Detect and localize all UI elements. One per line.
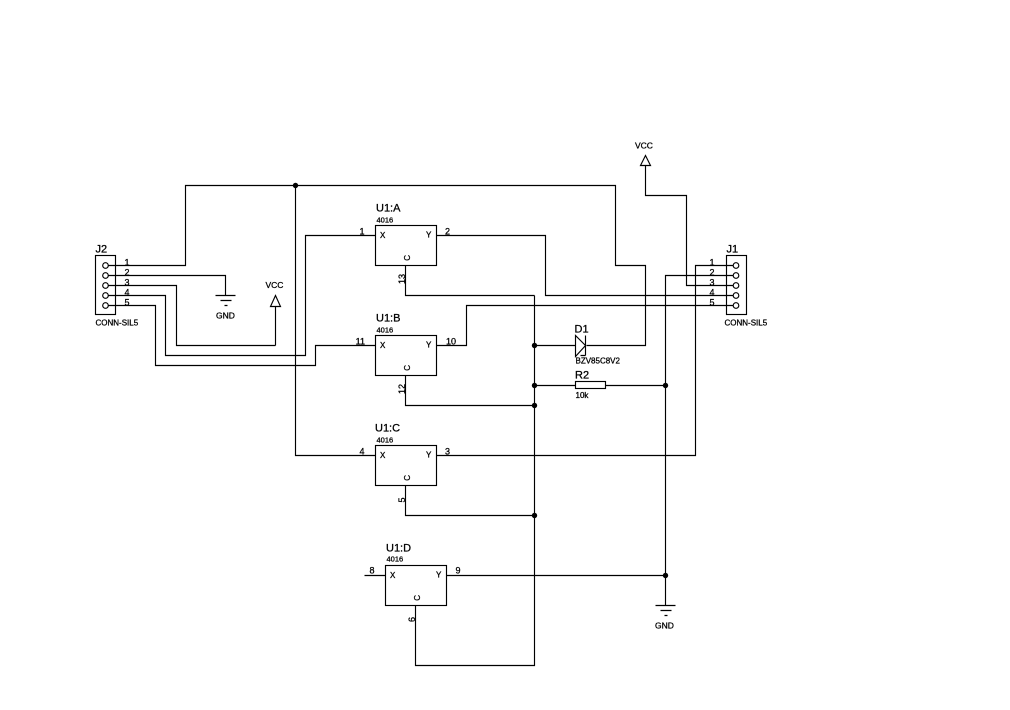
- svg-text:9: 9: [456, 566, 461, 576]
- J2 body outline: [96, 256, 116, 315]
- svg-text:R2: R2: [575, 370, 589, 382]
- svg-text:2: 2: [709, 267, 714, 277]
- wire U1:B pin 12 (C) to control net: [406, 376, 535, 406]
- svg-text:1: 1: [709, 257, 714, 267]
- junction dot control net / R2 left: [532, 383, 537, 388]
- svg-text:BZV85C8V2: BZV85C8V2: [576, 357, 621, 366]
- svg-text:4016: 4016: [377, 326, 394, 335]
- U1:B pin numbers: [356, 337, 456, 395]
- svg-text:C: C: [403, 365, 412, 371]
- junction dot ground net / R2 right: [663, 383, 668, 388]
- svg-text:D1: D1: [575, 324, 589, 336]
- wire branch from node A down to U1:C pin X: [296, 186, 376, 456]
- connector J2 pin numbers: [124, 257, 129, 307]
- analog switch U1:B: [376, 313, 437, 376]
- U1:D pin numbers: [369, 566, 460, 623]
- wire U1:A pin 13 (C) to control net: [406, 266, 535, 296]
- svg-text:U1:A: U1:A: [376, 203, 401, 215]
- analog switch U1:C: [375, 423, 437, 486]
- power VCC (top right): [635, 141, 734, 286]
- wire U1:D pin X stub (pin 8): [365, 575, 386, 577]
- svg-text:X: X: [390, 571, 396, 580]
- wire J2.5 to U1:B pin X: [109, 306, 376, 366]
- J1 pin circles 1-5: [733, 263, 739, 269]
- svg-text:Y: Y: [426, 341, 432, 350]
- svg-text:J2: J2: [96, 244, 108, 256]
- U1:C pin numbers: [359, 447, 450, 503]
- svg-text:4: 4: [124, 287, 129, 297]
- svg-text:3: 3: [709, 277, 714, 287]
- svg-text:C: C: [403, 255, 412, 261]
- J1 body outline: [727, 256, 747, 315]
- wire U1:A pin Y to J1.4: [437, 236, 734, 296]
- svg-text:U1:D: U1:D: [386, 543, 411, 555]
- wire U1:B pin Y to J1.5: [437, 306, 734, 346]
- junction dot control net / D1 anode: [532, 343, 537, 348]
- wire U1:C pin Y to J1.1: [437, 266, 734, 456]
- connector J1: [725, 244, 768, 328]
- zener diode symbol: [535, 336, 586, 357]
- svg-text:11: 11: [356, 337, 365, 347]
- svg-text:C: C: [403, 475, 412, 481]
- ground GND (left): [216, 296, 236, 321]
- analog switch U1:A: [376, 203, 437, 266]
- wire control net vertical with U1:D pin 6 (C): [416, 296, 535, 666]
- svg-text:Y: Y: [436, 571, 442, 580]
- diode D1 (zener): [535, 324, 621, 366]
- U1:D body outline: [386, 566, 447, 606]
- svg-text:8: 8: [369, 566, 374, 576]
- svg-text:GND: GND: [655, 621, 674, 631]
- svg-text:2: 2: [124, 267, 129, 277]
- U1:B body outline: [376, 336, 437, 376]
- svg-text:4016: 4016: [377, 216, 394, 225]
- svg-text:4: 4: [709, 287, 714, 297]
- svg-text:GND: GND: [216, 311, 235, 321]
- svg-text:VCC: VCC: [266, 280, 284, 290]
- svg-text:CONN-SIL5: CONN-SIL5: [725, 319, 768, 328]
- resistor body: [576, 382, 606, 389]
- svg-text:U1:B: U1:B: [376, 313, 400, 325]
- junction dot ground net / U1:D pin Y: [663, 573, 668, 578]
- svg-text:1: 1: [359, 227, 364, 237]
- J2 pin circles 1-5: [103, 263, 109, 269]
- junction dot control net / U1:C pin 5: [532, 513, 537, 518]
- svg-text:4: 4: [359, 447, 364, 457]
- svg-text:X: X: [380, 451, 386, 460]
- ground GND (right): [655, 606, 676, 631]
- wire J1.2 to ground net vertical: [666, 276, 734, 606]
- svg-text:5: 5: [124, 297, 129, 307]
- wire U1:D pin Y to ground net: [447, 575, 666, 577]
- junction dot control net / U1:B pin 12: [532, 403, 537, 408]
- svg-text:4016: 4016: [387, 555, 404, 564]
- wire J2.4 to U1:A pin X: [109, 236, 376, 356]
- svg-text:C: C: [413, 595, 422, 601]
- svg-text:CONN-SIL5: CONN-SIL5: [96, 319, 139, 328]
- svg-text:J1: J1: [727, 244, 739, 256]
- wire U1:C pin 5 (C) to control net: [406, 486, 535, 516]
- svg-text:1: 1: [124, 257, 129, 267]
- resistor leads: [535, 385, 666, 387]
- svg-text:X: X: [380, 341, 386, 350]
- resistor R2: [535, 370, 666, 401]
- svg-text:3: 3: [124, 277, 129, 287]
- svg-text:VCC: VCC: [635, 141, 653, 151]
- power VCC (left): [266, 280, 284, 346]
- svg-text:5: 5: [709, 297, 714, 307]
- wire J2.3 to VCC (left): [109, 286, 276, 346]
- svg-text:10k: 10k: [576, 391, 590, 400]
- node A junction dot (295,185): [293, 183, 298, 188]
- connector J2: [96, 244, 139, 328]
- svg-text:4016: 4016: [377, 436, 394, 445]
- U1:C body outline: [376, 446, 437, 486]
- connector J1 pin numbers: [709, 257, 714, 307]
- svg-text:Y: Y: [426, 451, 432, 460]
- svg-text:U1:C: U1:C: [375, 423, 400, 435]
- U1:A pin numbers: [359, 227, 450, 285]
- U1:A body outline: [376, 226, 437, 266]
- analog switch U1:D: [386, 543, 447, 606]
- wire J2.2 to ground: [109, 276, 226, 296]
- svg-text:Y: Y: [426, 231, 432, 240]
- wire net J2.1 to D1 cathode (top route): [109, 186, 646, 346]
- svg-text:X: X: [380, 231, 386, 240]
